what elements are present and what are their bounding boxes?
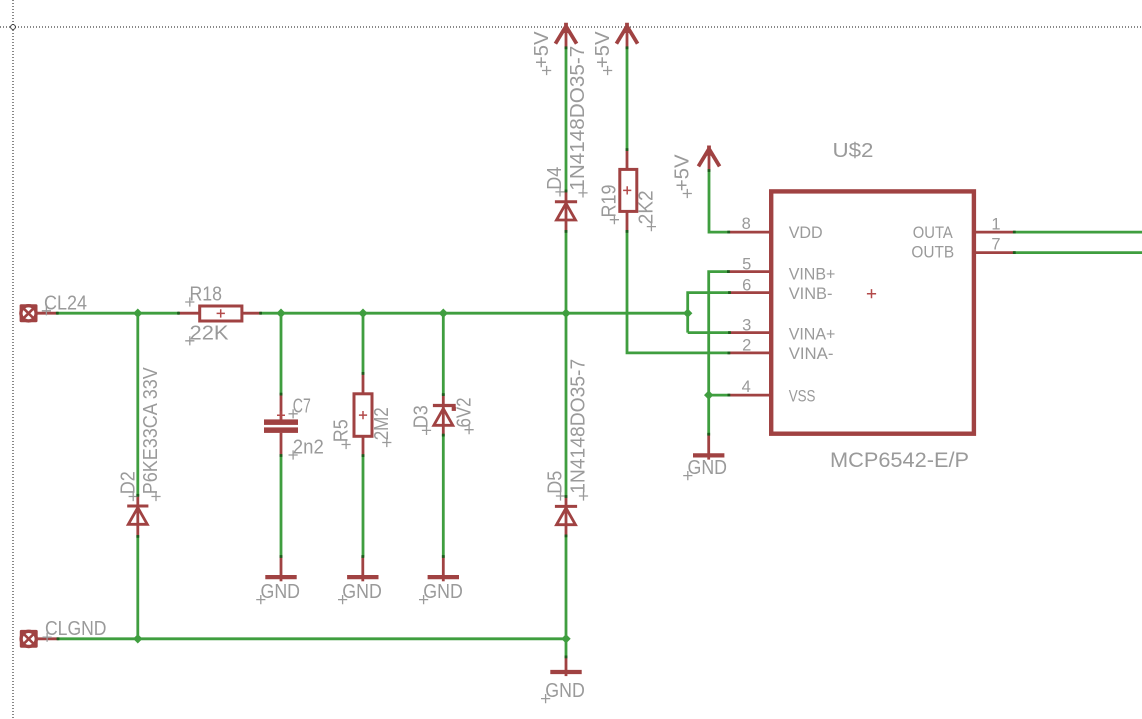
ground GND (below VSS) (693, 434, 724, 460)
svg-text:1N4148DO35-7: 1N4148DO35-7 (568, 359, 590, 494)
svg-text:2M2: 2M2 (371, 407, 393, 440)
wire main net to VINB- riser (688, 293, 730, 333)
pin 8 VDD stub (729, 231, 770, 234)
svg-text:VINA-: VINA- (789, 344, 834, 363)
svg-text:D4: D4 (544, 167, 566, 190)
label D3 name (rotated) (411, 405, 433, 435)
svg-text:3: 3 (742, 316, 751, 334)
label D2 value P6KE33CA 33V (rotated) (140, 367, 162, 501)
wire CLGND junction to GND vertical (565, 639, 568, 657)
label D5 name (rotated) (545, 471, 567, 501)
pin 5 VINB+ stub (728, 270, 769, 273)
label C7 value 2n2 (289, 437, 324, 460)
op-amp U$2 MCP6542-E/P body (771, 191, 974, 433)
node CLGND label (43, 618, 107, 642)
wire +5V to D4 vertical (565, 48, 568, 192)
svg-text:P6KE33CA 33V: P6KE33CA 33V (140, 367, 162, 495)
wire OUTA net (1014, 231, 1142, 234)
svg-text:22K: 22K (190, 322, 230, 344)
ground GND (below D3) (428, 556, 459, 581)
label GND (below R5) (338, 581, 382, 604)
svg-text:8: 8 (742, 215, 751, 233)
ground GND (below C7) (265, 556, 296, 581)
svg-text:GND: GND (342, 581, 382, 603)
wire R5 branch vertical upper (362, 313, 365, 373)
wire D3 branch vertical upper (442, 313, 445, 395)
svg-text:6: 6 (742, 276, 751, 294)
svg-text:+5V: +5V (531, 31, 553, 69)
svg-text:GND: GND (261, 581, 301, 603)
junction main-D4D5 (561, 309, 570, 318)
label D3 value 6V2 (rotated) (453, 398, 475, 435)
pin 3 VINA+ stub (729, 331, 769, 334)
wire R19 to VINA- pin 2 (627, 231, 729, 353)
wire C7 branch vertical lower (280, 455, 283, 556)
label D4 name (rotated) (544, 167, 566, 197)
resistor R5 (354, 373, 372, 455)
label +5V (right arrow) rotated (592, 31, 614, 75)
svg-text:VDD: VDD (789, 223, 823, 242)
label R5 name (rotated) (330, 419, 352, 449)
supply +5V arrow (above R19) (616, 23, 637, 48)
label +5V (left arrow) rotated (531, 31, 553, 75)
pad CL24 (19, 304, 57, 323)
svg-text:VINB-: VINB- (789, 284, 833, 303)
svg-text:+5V: +5V (592, 31, 614, 69)
junction CLGND-D5GND (561, 634, 570, 643)
diode D3 zener (433, 395, 456, 436)
wire VSS pin 4 (709, 394, 729, 397)
wire +5V to R19 vertical (626, 48, 629, 150)
svg-text:CLGND: CLGND (45, 618, 107, 640)
node CL24 label (42, 292, 87, 315)
junction main-D2 (133, 309, 142, 318)
label D2 name (rotated) (117, 471, 139, 501)
svg-text:5: 5 (742, 255, 751, 273)
svg-text:OUTA: OUTA (913, 223, 954, 242)
svg-text:R19: R19 (599, 185, 621, 218)
diode D2 (127, 495, 148, 536)
pin 4 VSS stub (729, 394, 769, 397)
junction main-C7 (276, 309, 285, 318)
resistor R19 (620, 150, 637, 232)
label R19 name (rotated) (599, 185, 621, 225)
svg-text:7: 7 (991, 236, 1000, 254)
resistor R18 (178, 306, 261, 321)
ground GND (bottom, below CLGND junction) (550, 657, 581, 676)
label D5 value 1N4148DO35-7 (rotated) (568, 359, 590, 501)
pin 1 OUTA stub (976, 231, 1015, 234)
wire D3 branch vertical lower (442, 435, 445, 557)
svg-text:VSS: VSS (789, 386, 816, 405)
wire VINB+ pin 5 to VSS rail (709, 272, 729, 435)
wire R5 branch vertical lower (362, 455, 365, 556)
ground GND (below R5) (347, 556, 378, 581)
svg-text:OUTB: OUTB (911, 243, 954, 262)
label R5 value 2M2 (rotated) (371, 407, 393, 447)
wire OUTB net (1014, 251, 1142, 254)
junction main-D3 (439, 309, 448, 318)
svg-text:1: 1 (991, 216, 1000, 234)
junction main-IC inputs (683, 309, 692, 318)
wire C7 branch vertical upper (280, 313, 283, 394)
wire main net horizontal right segment (261, 312, 688, 315)
label R18 value 22K (185, 322, 229, 345)
wire main net to D5 vertical (565, 313, 568, 496)
label GND (below D3) (419, 581, 463, 604)
junction VSS-GND (704, 390, 713, 399)
svg-text:GND: GND (688, 457, 728, 479)
junction main-R5 (358, 309, 367, 318)
label C7 name (289, 395, 311, 418)
svg-text:+5V: +5V (672, 154, 694, 192)
label GND (bottom) (541, 680, 585, 703)
svg-text:GND: GND (545, 680, 585, 702)
label +5V (VDD arrow) rotated (672, 154, 694, 198)
svg-text:U$2: U$2 (833, 140, 874, 162)
pin 7 OUTB stub (976, 251, 1015, 254)
diode D5 (555, 496, 577, 536)
wire main net to VINA+ pin 3 (688, 331, 730, 334)
label D4 value 1N4148DO35-7 (rotated) (567, 46, 589, 198)
svg-text:VINA+: VINA+ (789, 325, 836, 344)
wire endpoint dots (56, 46, 1016, 658)
svg-text:VINB+: VINB+ (789, 265, 836, 284)
svg-text:6V2: 6V2 (453, 398, 475, 428)
pad CLGND (19, 630, 58, 649)
junction CLGND-D2 (133, 634, 142, 643)
svg-text:D5: D5 (545, 471, 567, 494)
wire D5 to CLGND net vertical (565, 536, 568, 639)
capacitor C7 (264, 394, 298, 456)
svg-text:4: 4 (742, 378, 751, 396)
svg-text:D3: D3 (411, 405, 433, 428)
label GND (below C7) (256, 581, 300, 604)
supply +5V arrow (above VDD) (698, 146, 719, 171)
wire D4 to main net vertical (565, 231, 568, 313)
pin 6 VINB- stub (729, 291, 769, 294)
diode D4 (555, 191, 577, 232)
pin 2 VINA- stub (729, 351, 769, 354)
wire D2 branch vertical lower (136, 536, 139, 639)
supply +5V arrow (above D4) (555, 23, 576, 48)
svg-text:2: 2 (742, 337, 751, 355)
svg-text:1N4148DO35-7: 1N4148DO35-7 (567, 46, 589, 191)
wire +5V to VDD pin 8 (709, 170, 729, 232)
wire D2 branch vertical upper (136, 313, 139, 495)
label GND (below VSS) (683, 457, 727, 480)
wire CLGND net horizontal (58, 637, 566, 640)
label R19 value 2K2 (rotated) (636, 190, 658, 231)
svg-text:GND: GND (423, 581, 463, 603)
svg-text:R5: R5 (330, 419, 352, 442)
label R18 name (185, 284, 222, 307)
svg-text:D2: D2 (117, 471, 139, 494)
wire main net horizontal left segment (57, 312, 179, 315)
svg-text:2K2: 2K2 (636, 190, 658, 224)
svg-text:MCP6542-E/P: MCP6542-E/P (830, 449, 969, 472)
